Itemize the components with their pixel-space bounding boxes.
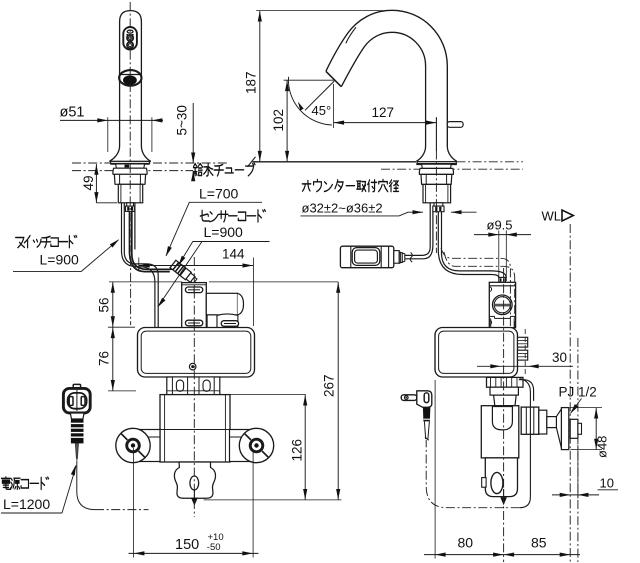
supply tube leader bbox=[164, 202, 189, 257]
svg-text:30: 30 bbox=[552, 350, 567, 365]
faucet base plate (left) bbox=[111, 161, 150, 163]
svg-text:5~30: 5~30 bbox=[175, 105, 190, 135]
dimension 30 bbox=[477, 364, 573, 368]
outlet pipe bbox=[547, 417, 557, 428]
locknut (left) bbox=[114, 174, 145, 184]
base gasket (right) bbox=[422, 164, 452, 168]
valve bottom can (side) bbox=[482, 458, 518, 497]
box lower connection ports bbox=[167, 377, 220, 395]
dimension 5~30 bbox=[191, 103, 195, 181]
PJ leader bbox=[569, 399, 582, 416]
valve body (front view) bbox=[160, 395, 230, 462]
label 102 bbox=[271, 109, 286, 132]
svg-text:L=1200: L=1200 bbox=[3, 496, 50, 512]
svg-text:102: 102 bbox=[271, 109, 286, 132]
label power cord bbox=[1, 477, 62, 513]
mounting hole dimension arrows bbox=[399, 210, 477, 216]
svg-text:49: 49 bbox=[81, 175, 96, 190]
left faucet centerline bbox=[129, 2, 131, 252]
stop valve body with screw bbox=[489, 282, 515, 327]
svg-text:ø32±2~ø36±2: ø32±2~ø36±2 bbox=[302, 201, 383, 216]
flow direction arrow (side) bbox=[500, 489, 507, 505]
gooseneck spout outer profile bbox=[326, 10, 447, 148]
label 76 bbox=[97, 351, 112, 366]
plug neck and boot bbox=[70, 413, 84, 443]
svg-text:ø51: ø51 bbox=[60, 105, 85, 121]
label 267 bbox=[322, 374, 337, 397]
shank bottom fitting (left) bbox=[126, 203, 135, 212]
control unit centerline (front view) bbox=[193, 257, 195, 517]
label PJ 1/2 bbox=[559, 385, 597, 400]
power plug (side view) bbox=[401, 391, 432, 408]
svg-text:45°: 45° bbox=[312, 103, 332, 118]
elbow bracket plate (side) bbox=[519, 380, 534, 401]
cord break mark bbox=[410, 252, 412, 262]
aerator lever bbox=[447, 122, 463, 128]
svg-text:-50: -50 bbox=[207, 542, 221, 553]
control box (front view) bbox=[138, 328, 255, 378]
inlet block top slot bbox=[185, 287, 202, 293]
switch cord to connector (side view) bbox=[405, 203, 433, 259]
indicator dot on box bbox=[189, 363, 196, 370]
right connection arm bbox=[230, 430, 257, 462]
counter line (right view) solid part bbox=[248, 157, 417, 167]
dimension 80 and 85 bbox=[424, 380, 580, 559]
power cord around unit (side view) bbox=[426, 379, 530, 508]
label 56 bbox=[97, 297, 112, 312]
svg-text:144: 144 bbox=[222, 247, 245, 262]
plug cord taper (side) bbox=[424, 421, 429, 440]
base gasket (left) bbox=[116, 164, 145, 168]
label switch cord bbox=[13, 235, 81, 271]
right valve unit centerline bbox=[503, 268, 505, 562]
dimension 187 bbox=[256, 11, 400, 162]
svg-text:10: 10 bbox=[600, 476, 614, 491]
left connection arm bbox=[133, 430, 160, 462]
label 85 bbox=[531, 535, 547, 551]
svg-text:127: 127 bbox=[372, 105, 395, 120]
dimension 126 bbox=[231, 395, 308, 500]
gooseneck spout inner profile bbox=[341, 32, 425, 86]
outlet collar bbox=[539, 410, 547, 434]
switch cord leader bbox=[81, 238, 121, 272]
faucet base plate (right) bbox=[416, 162, 457, 164]
spout length-adjust jog bbox=[346, 27, 356, 43]
dimension 267 bbox=[336, 282, 340, 500]
stop valve top fitting bbox=[499, 277, 506, 282]
label supply tube bbox=[189, 163, 262, 202]
operation buttons cluster bbox=[123, 27, 137, 50]
valve block (side) bbox=[494, 395, 517, 406]
label 144 bbox=[222, 247, 245, 262]
inlet right slot bbox=[221, 321, 238, 327]
water supply tube (front view) bbox=[122, 203, 159, 328]
locknut (right) bbox=[421, 174, 452, 184]
svg-text:ø9.5: ø9.5 bbox=[487, 218, 513, 233]
label 30 bbox=[552, 350, 567, 365]
sensor cord chain (side view) run 2 bbox=[444, 252, 515, 328]
power cord leader bbox=[62, 464, 78, 513]
sensor cord leader bbox=[176, 242, 192, 267]
sensor cord chain (side view) run 1 bbox=[441, 248, 510, 328]
threaded shank (right) bbox=[423, 184, 451, 202]
mounting washer (right) bbox=[419, 168, 453, 174]
label 126 bbox=[290, 439, 305, 462]
label 5~30 bbox=[175, 105, 190, 135]
wall flange disc bbox=[556, 408, 568, 450]
label 127 bbox=[372, 105, 395, 120]
svg-text:150: 150 bbox=[175, 537, 199, 553]
switch cord continuing into box (chain) bbox=[130, 257, 132, 326]
counter lower line (right view) bbox=[381, 168, 523, 170]
mounting washer (left) bbox=[113, 168, 147, 174]
counter top surface line (left view) bbox=[72, 162, 228, 164]
counter line (right view) chain part bbox=[456, 161, 523, 163]
hidden line through blocks bbox=[524, 329, 526, 376]
valve main body (side) bbox=[481, 406, 519, 458]
sensor cord (front view) bbox=[130, 211, 173, 271]
svg-text:ø48: ø48 bbox=[595, 436, 610, 458]
label 80 bbox=[458, 535, 474, 551]
label 45deg bbox=[312, 103, 332, 118]
svg-text:L=700: L=700 bbox=[199, 186, 239, 202]
sensor cord connector bbox=[170, 260, 198, 285]
svg-text:56: 56 bbox=[97, 297, 112, 312]
svg-text:76: 76 bbox=[97, 351, 112, 366]
45 degree axis line bbox=[305, 81, 334, 110]
threaded shank (left) bbox=[118, 184, 142, 203]
label Ø51 bbox=[60, 105, 85, 121]
svg-text:PJ 1/2: PJ 1/2 bbox=[559, 385, 597, 400]
label 150 +10 -50 bbox=[175, 532, 224, 553]
dimension 10 bbox=[552, 445, 618, 499]
dimension 49 bbox=[94, 164, 117, 203]
supply tube (side view) bbox=[438, 212, 506, 278]
ribbed flange (side) bbox=[487, 377, 524, 387]
plug boot (side) bbox=[423, 407, 431, 421]
sensor cord leader 2 bbox=[156, 242, 202, 309]
box side mounting blocks bbox=[518, 337, 528, 360]
dimension 56 bbox=[111, 282, 115, 327]
dimension Ø48 bbox=[571, 408, 603, 450]
inlet connection block on box top bbox=[182, 283, 244, 328]
dimension line for Ø51 bbox=[60, 117, 163, 152]
dimension Ø9.5 bbox=[474, 230, 531, 281]
label Ø9.5 bbox=[487, 218, 513, 233]
label counter mounting hole bbox=[301, 180, 400, 216]
power cord (chain, front view) bbox=[77, 462, 149, 510]
left coupling wheel bbox=[116, 428, 150, 462]
dimension 102 bbox=[284, 80, 335, 162]
label sensor cord bbox=[193, 210, 270, 242]
shank bottom fitting (right) bbox=[433, 203, 444, 212]
label 10 bbox=[600, 476, 614, 491]
flow direction arrow (front) bbox=[191, 490, 198, 506]
dimension 76 bbox=[111, 327, 115, 391]
dimension 144 bbox=[139, 258, 254, 327]
label 187 bbox=[244, 71, 259, 94]
svg-text:267: 267 bbox=[322, 374, 337, 397]
label 49 bbox=[81, 175, 96, 190]
WL marker bbox=[542, 209, 574, 224]
control box (side view) bbox=[435, 328, 518, 378]
extension line outlet bottom bbox=[204, 499, 342, 501]
45 degree arc bbox=[288, 77, 332, 125]
flange band (side) bbox=[490, 387, 518, 395]
svg-text:80: 80 bbox=[458, 535, 474, 551]
dimension 127 bbox=[334, 84, 437, 151]
wall second chain line bbox=[577, 338, 579, 562]
spout tip face bbox=[326, 71, 341, 86]
svg-text:85: 85 bbox=[531, 535, 547, 551]
faucet riser (side view) bbox=[417, 66, 457, 162]
outlet body (front) bbox=[174, 462, 215, 498]
right coupling wheel bbox=[239, 428, 273, 462]
svg-text:L=900: L=900 bbox=[204, 224, 244, 240]
counter bottom surface line (left view) bbox=[72, 170, 193, 172]
switch connector box bbox=[340, 246, 404, 268]
svg-text:WL: WL bbox=[542, 209, 562, 224]
extension line at cord level bbox=[109, 281, 338, 283]
power plug (front view) bbox=[63, 384, 90, 413]
power cord taper bbox=[75, 443, 78, 461]
label Ø48 bbox=[595, 436, 610, 458]
svg-text:187: 187 bbox=[244, 71, 259, 94]
pipe into wall PJ1/2 bbox=[570, 419, 581, 438]
faucet body (front view) bbox=[110, 11, 151, 162]
right faucet centerline bbox=[435, 151, 437, 254]
outlet nut (side) bbox=[521, 407, 539, 434]
sensor window bbox=[119, 70, 141, 86]
svg-text:L=900: L=900 bbox=[40, 252, 80, 268]
svg-text:126: 126 bbox=[290, 439, 305, 462]
extension line at box top bbox=[108, 326, 135, 328]
dimension 150 bbox=[129, 448, 259, 558]
extension line below box bbox=[108, 390, 136, 392]
inlet block bottom slot bbox=[185, 320, 202, 326]
wall line WL vertical chain bbox=[569, 224, 571, 562]
